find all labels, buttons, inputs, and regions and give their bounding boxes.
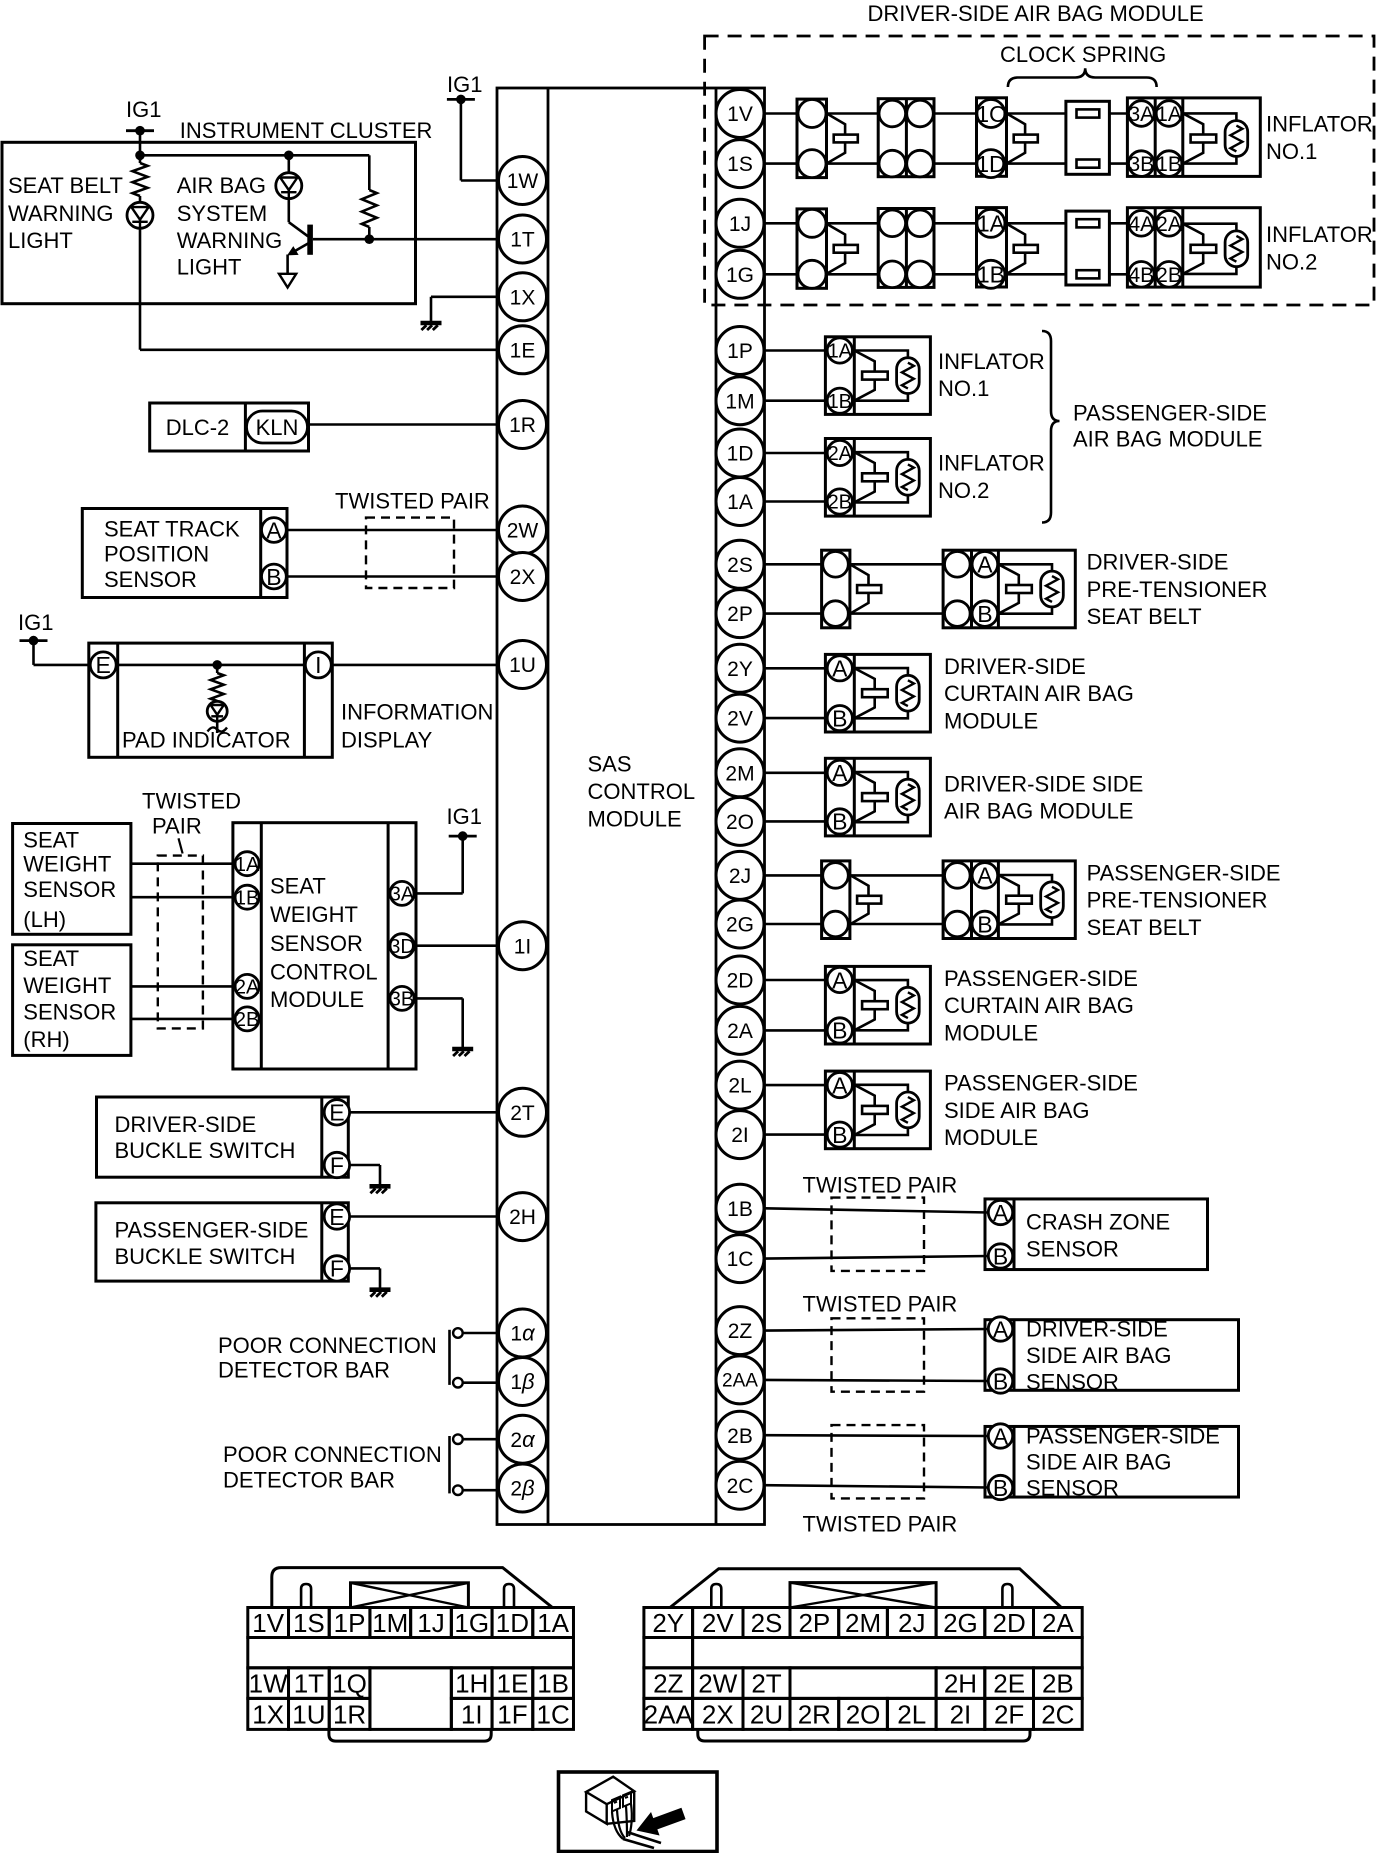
label SEAT WEIGHT SENSOR (RH) xyxy=(23,946,116,1052)
open terminal to 1α xyxy=(453,1328,498,1338)
wire pin to pre-tensioner connector (top) xyxy=(765,563,822,566)
SAS module pin 2G xyxy=(716,900,764,948)
label pre-tensioner seat belt xyxy=(1087,860,1281,940)
terminal E (driver buckle) xyxy=(324,1100,349,1126)
svg-text:DRIVER-SIDE: DRIVER-SIDE xyxy=(115,1112,257,1137)
svg-text:1G: 1G xyxy=(726,264,754,287)
svg-text:A: A xyxy=(993,1316,1009,1342)
wire clock spring connector to coil (row 1A) xyxy=(1007,222,1066,225)
svg-text:1A: 1A xyxy=(727,491,753,514)
svg-text:1A: 1A xyxy=(235,854,260,876)
svg-text:SIDE AIR BAG: SIDE AIR BAG xyxy=(944,1098,1090,1123)
svg-text:WARNING: WARNING xyxy=(8,201,114,226)
wire pin to pre-tensioner connector (bottom) xyxy=(765,923,822,926)
label PASSENGER-SIDE BUCKLE SWITCH xyxy=(115,1218,309,1269)
label SEAT WEIGHT SENSOR CONTROL MODULE xyxy=(270,873,378,1012)
svg-text:BUCKLE SWITCH: BUCKLE SWITCH xyxy=(115,1244,296,1269)
svg-text:2X: 2X xyxy=(702,1699,734,1729)
connector 2 row 3 cells xyxy=(644,1698,1083,1729)
wire pin to driver-side side air bag module (terminal B) xyxy=(765,820,826,823)
svg-text:A: A xyxy=(832,1072,848,1098)
svg-text:A: A xyxy=(832,656,848,682)
svg-text:B: B xyxy=(832,1122,847,1148)
label passenger-side side air bag module xyxy=(944,1071,1138,1151)
passenger-side buckle switch box xyxy=(96,1203,348,1281)
svg-text:1D: 1D xyxy=(976,151,1005,177)
seat weight sensor LH box xyxy=(13,824,131,935)
svg-text:2U: 2U xyxy=(750,1699,783,1729)
svg-text:1U: 1U xyxy=(292,1699,325,1729)
information display box xyxy=(89,643,332,757)
svg-text:2Z: 2Z xyxy=(653,1669,683,1699)
svg-text:2M: 2M xyxy=(725,762,754,785)
twisted pair shield (passenger-side side air bag sensor) xyxy=(832,1425,925,1498)
wire joint to clock spring (row 1B) xyxy=(934,273,977,276)
SAS module pin 2J xyxy=(716,851,764,899)
svg-text:IG1: IG1 xyxy=(447,804,482,829)
wire clock spring connector to coil (row 1D) xyxy=(1007,162,1066,165)
svg-text:DRIVER-SIDE: DRIVER-SIDE xyxy=(944,654,1086,679)
svg-text:1B: 1B xyxy=(235,887,259,909)
svg-text:TWISTED PAIR: TWISTED PAIR xyxy=(803,1172,958,1197)
svg-text:DETECTOR BAR: DETECTOR BAR xyxy=(223,1468,395,1493)
svg-text:TWISTED: TWISTED xyxy=(142,788,241,813)
svg-text:NO.1: NO.1 xyxy=(938,376,989,401)
node junction IG1 bus xyxy=(135,151,145,161)
svg-text:PASSENGER-SIDE: PASSENGER-SIDE xyxy=(1073,400,1267,425)
SAS module pin 2Z xyxy=(716,1307,764,1355)
node junction air bag lamp branch xyxy=(284,151,294,161)
connector 1 locator pin left xyxy=(301,1584,311,1608)
svg-text:BUCKLE SWITCH: BUCKLE SWITCH xyxy=(115,1138,296,1163)
wire E to pin 2T xyxy=(350,1111,497,1114)
terminal 3A (SWS control module) xyxy=(390,881,415,905)
SAS module pin 1X xyxy=(499,273,547,321)
connector 2 row 2 cells xyxy=(644,1668,1082,1699)
DLC-2 connector box xyxy=(150,403,309,451)
wire pin to passenger-side side air bag module (terminal A) xyxy=(765,1084,826,1087)
label TWISTED PAIR (driver-side side air bag sensor) xyxy=(803,1291,958,1316)
wire IG1 to 3A xyxy=(414,836,463,893)
svg-text:2S: 2S xyxy=(751,1608,783,1638)
open terminal to 2α xyxy=(453,1434,498,1444)
label AIR BAG SYSTEM WARNING LIGHT xyxy=(177,173,283,280)
svg-text:2V: 2V xyxy=(702,1608,734,1638)
svg-text:1Q: 1Q xyxy=(332,1669,367,1699)
svg-text:SENSOR: SENSOR xyxy=(1026,1369,1119,1394)
label DLC-2 xyxy=(166,415,230,440)
connector 1 middle open region xyxy=(370,1668,451,1730)
svg-text:2X: 2X xyxy=(510,566,536,589)
wire clock spring connector to coil (row 1B) xyxy=(1007,273,1066,276)
label DRIVER-SIDE BUCKLE SWITCH xyxy=(115,1112,296,1163)
svg-text:WEIGHT: WEIGHT xyxy=(23,852,111,877)
ground (passenger buckle) xyxy=(370,1290,391,1297)
wire connector to pre-tensioner (bottom) xyxy=(850,612,943,615)
connector 1 bottom tab xyxy=(329,1729,491,1741)
svg-text:2B: 2B xyxy=(1156,264,1182,287)
label SEAT WEIGHT SENSOR (LH) xyxy=(23,828,116,932)
svg-text:CURTAIN AIR BAG: CURTAIN AIR BAG xyxy=(944,681,1134,706)
label INSTRUMENT CLUSTER xyxy=(180,118,433,143)
svg-text:1I: 1I xyxy=(514,935,532,958)
svg-text:B: B xyxy=(832,809,847,835)
wire LH to 1B xyxy=(131,896,234,899)
svg-text:1B: 1B xyxy=(1156,153,1182,176)
svg-text:I: I xyxy=(315,652,321,678)
svg-text:2I: 2I xyxy=(950,1699,972,1729)
in-line connector (pre-tensioner) xyxy=(822,550,882,628)
resistor (pad indicator) xyxy=(211,665,224,701)
SAS module pin 1β xyxy=(499,1358,547,1406)
resistor (seat belt warning light ballast) xyxy=(133,155,148,202)
svg-text:SEAT TRACK: SEAT TRACK xyxy=(104,517,240,542)
svg-text:POSITION: POSITION xyxy=(104,541,209,566)
svg-text:1M: 1M xyxy=(372,1608,408,1638)
connector 2 locator pin right xyxy=(1002,1584,1012,1608)
svg-text:1I: 1I xyxy=(461,1699,483,1729)
svg-text:1M: 1M xyxy=(725,390,754,413)
wire F to ground (passenger buckle) xyxy=(350,1268,380,1288)
svg-text:1J: 1J xyxy=(729,213,751,236)
svg-text:1E: 1E xyxy=(510,339,536,362)
node junction pad indicator xyxy=(212,660,222,670)
wire IG1 to pin 1W xyxy=(461,99,497,180)
connector 2 locator pin left xyxy=(711,1584,721,1608)
svg-text:1α: 1α xyxy=(510,1321,536,1346)
wire pin to pre-tensioner connector (bottom) xyxy=(765,612,822,615)
svg-text:2B: 2B xyxy=(1042,1669,1074,1699)
svg-text:PAIR: PAIR xyxy=(152,813,202,838)
svg-text:DISPLAY: DISPLAY xyxy=(341,728,433,753)
svg-text:PAD INDICATOR: PAD INDICATOR xyxy=(122,728,291,753)
svg-text:PASSENGER-SIDE: PASSENGER-SIDE xyxy=(944,966,1138,991)
wire pin to driver-side side air bag sensor A xyxy=(765,1329,989,1331)
wire joint to clock spring (row 1D) xyxy=(934,162,977,165)
svg-text:2B: 2B xyxy=(235,1009,259,1031)
svg-text:4B: 4B xyxy=(1128,264,1154,287)
harness-side connector icon cube xyxy=(586,1777,634,1824)
wire connector to pre-tensioner (top) xyxy=(850,563,943,566)
svg-text:2Z: 2Z xyxy=(728,1320,753,1343)
connector 1 locator pin right xyxy=(504,1584,514,1608)
terminal B (seat track sensor) xyxy=(262,564,287,590)
passenger inflator NO.1 box xyxy=(825,337,930,415)
connector 1 gap band xyxy=(248,1638,574,1668)
svg-text:2W: 2W xyxy=(698,1669,737,1699)
wire IG1 bus across cluster xyxy=(140,154,369,157)
open terminal to 2β xyxy=(453,1485,498,1495)
lamp air bag system warning light xyxy=(276,173,302,199)
svg-text:3B: 3B xyxy=(390,989,414,1011)
wire pin to passenger inflator NO.1 (terminal 1A) xyxy=(765,349,826,352)
seat weight sensor RH box xyxy=(13,945,131,1056)
connector 2 shell outline xyxy=(670,1569,1061,1608)
svg-text:2W: 2W xyxy=(507,520,539,543)
SAS module pin 2M xyxy=(716,749,764,797)
terminal 2A (SWS control module) xyxy=(235,974,260,998)
wire coil to inflator (row 1B) xyxy=(1109,273,1127,276)
svg-text:SIDE AIR BAG: SIDE AIR BAG xyxy=(1026,1343,1172,1368)
svg-text:CLOCK SPRING: CLOCK SPRING xyxy=(1000,42,1166,67)
svg-text:INFLATOR: INFLATOR xyxy=(1266,112,1373,137)
svg-text:INFORMATION: INFORMATION xyxy=(341,699,493,724)
svg-text:TWISTED PAIR: TWISTED PAIR xyxy=(803,1511,958,1536)
label INFORMATION DISPLAY xyxy=(341,699,493,752)
wire IG1 down into instrument cluster xyxy=(139,131,142,156)
SAS module pin 2β xyxy=(499,1464,547,1512)
svg-text:TWISTED PAIR: TWISTED PAIR xyxy=(803,1291,958,1316)
wire coil to inflator (row 1D) xyxy=(1109,162,1127,165)
svg-text:CRASH ZONE: CRASH ZONE xyxy=(1026,1209,1170,1234)
svg-text:INSTRUMENT CLUSTER: INSTRUMENT CLUSTER xyxy=(180,118,433,143)
driver-side buckle switch box xyxy=(97,1097,349,1177)
svg-text:B: B xyxy=(977,911,992,937)
svg-text:F: F xyxy=(330,1152,344,1178)
wire pin to connector (row 1D) xyxy=(765,162,798,165)
svg-text:1S: 1S xyxy=(727,153,753,176)
svg-text:1C: 1C xyxy=(727,1248,754,1271)
svg-text:1W: 1W xyxy=(507,170,539,193)
svg-text:INFLATOR: INFLATOR xyxy=(1266,222,1373,247)
svg-text:DLC-2: DLC-2 xyxy=(166,415,230,440)
svg-text:1B: 1B xyxy=(537,1669,569,1699)
wire pin to passenger-side curtain air bag module (terminal A) xyxy=(765,979,826,982)
svg-text:SIDE AIR BAG: SIDE AIR BAG xyxy=(1026,1449,1172,1474)
SAS module pin 2AA xyxy=(716,1356,764,1404)
svg-text:IG1: IG1 xyxy=(126,97,161,122)
svg-text:1D: 1D xyxy=(727,443,754,466)
SAS module pin 2S xyxy=(716,540,764,588)
svg-text:DRIVER-SIDE: DRIVER-SIDE xyxy=(1026,1316,1168,1341)
twisted pair shield (seat track) xyxy=(366,518,454,588)
wire pin to passenger-side side air bag module (terminal B) xyxy=(765,1133,826,1136)
twisted pair shield (driver-side side air bag sensor) xyxy=(832,1318,925,1391)
SAS control module body xyxy=(497,88,765,1525)
svg-text:SENSOR: SENSOR xyxy=(23,877,116,902)
label SAS CONTROL MODULE xyxy=(588,751,696,831)
resistor (cluster pull-up) xyxy=(362,155,377,239)
terminal E (information display) xyxy=(90,652,116,678)
svg-text:A: A xyxy=(993,1423,1009,1449)
wire IG1 to terminal E xyxy=(34,641,91,665)
terminal F (driver buckle) xyxy=(324,1152,349,1178)
svg-text:1S: 1S xyxy=(293,1608,325,1638)
joint connector pair (row 1A/1B) xyxy=(878,209,934,288)
svg-text:B: B xyxy=(977,601,992,627)
label pre-tensioner seat belt xyxy=(1087,550,1268,630)
connector 2 row 1 cells xyxy=(644,1608,1082,1638)
leader line twisted pair xyxy=(179,838,183,853)
wire joint to clock spring (row 1C) xyxy=(934,112,977,115)
svg-text:KLN: KLN xyxy=(256,415,299,440)
label TWISTED PAIR (seat weight) xyxy=(142,788,241,838)
svg-text:LIGHT: LIGHT xyxy=(8,228,73,253)
label driver-side side air bag module xyxy=(944,771,1143,823)
SAS module pin 2C xyxy=(716,1461,764,1509)
label POOR CONNECTION DETECTOR BAR 1 xyxy=(218,1333,437,1383)
svg-text:PASSENGER-SIDE: PASSENGER-SIDE xyxy=(115,1218,309,1243)
wire pin to connector (row 1B) xyxy=(765,273,798,276)
svg-text:B: B xyxy=(993,1368,1008,1394)
power source IG1 (SWS control module) xyxy=(447,804,482,841)
svg-text:2V: 2V xyxy=(727,708,753,731)
SAS module pin 1P xyxy=(716,327,764,375)
svg-text:1P: 1P xyxy=(334,1608,366,1638)
wire pin to connector (row 1A) xyxy=(765,222,798,225)
connector 2 gap band left cell xyxy=(644,1638,693,1668)
svg-text:CONTROL: CONTROL xyxy=(588,779,696,804)
connector 2 keyway xyxy=(790,1583,936,1608)
joint connector pair (row 1C/1D) xyxy=(878,99,934,177)
clock spring brace xyxy=(1008,68,1157,87)
wire RH to 2A xyxy=(131,985,234,988)
svg-text:2α: 2α xyxy=(510,1427,536,1452)
wire pin to crash zone sensor A xyxy=(765,1208,989,1212)
wire pin to driver-side curtain air bag module (terminal B) xyxy=(765,717,826,720)
svg-text:SENSOR: SENSOR xyxy=(1026,1475,1119,1500)
svg-text:B: B xyxy=(266,564,281,590)
wire seat belt lamp to 1E xyxy=(140,228,497,349)
label passenger-side side air bag sensor xyxy=(1026,1423,1220,1500)
svg-text:2B: 2B xyxy=(727,1425,753,1448)
svg-text:2A: 2A xyxy=(1042,1608,1074,1638)
svg-text:1V: 1V xyxy=(252,1608,284,1638)
lamp pad indicator xyxy=(207,701,227,721)
svg-text:2A: 2A xyxy=(1156,213,1182,236)
SAS module pin 1G xyxy=(716,250,764,298)
wire pin 1X to ground xyxy=(431,297,497,322)
svg-text:TWISTED PAIR: TWISTED PAIR xyxy=(335,488,490,513)
svg-text:IG1: IG1 xyxy=(447,72,482,97)
passenger-side curtain air bag module box xyxy=(825,966,930,1044)
svg-text:2P: 2P xyxy=(798,1608,830,1638)
label INFLATOR NO.1 xyxy=(1266,112,1373,164)
label passenger-side curtain air bag module xyxy=(944,966,1138,1046)
svg-text:2C: 2C xyxy=(727,1475,754,1498)
label INFLATOR NO.2 xyxy=(1266,222,1373,274)
svg-text:AIR BAG MODULE: AIR BAG MODULE xyxy=(944,799,1133,824)
wire pin to passenger-side curtain air bag module (terminal B) xyxy=(765,1029,826,1032)
svg-text:1G: 1G xyxy=(454,1608,489,1638)
svg-text:LIGHT: LIGHT xyxy=(177,254,242,279)
svg-text:SAS: SAS xyxy=(588,751,632,776)
label SEAT TRACK POSITION SENSOR xyxy=(104,517,240,592)
svg-text:B: B xyxy=(832,705,847,731)
svg-text:NO.1: NO.1 xyxy=(1266,139,1317,164)
label TWISTED PAIR (passenger-side side air bag sensor below) xyxy=(803,1511,958,1536)
in-line connector (pre-tensioner) xyxy=(822,861,882,939)
clock spring connector 1A/1B xyxy=(977,208,1038,289)
SAS module pin 2D xyxy=(716,956,764,1004)
wire E to I inside display xyxy=(116,664,305,667)
SAS module pin 1M xyxy=(716,377,764,425)
driver-side side air bag sensor box xyxy=(985,1316,1239,1394)
svg-text:2G: 2G xyxy=(943,1608,978,1638)
svg-text:DRIVER-SIDE: DRIVER-SIDE xyxy=(1087,550,1229,575)
svg-text:1T: 1T xyxy=(510,229,535,252)
svg-text:MODULE: MODULE xyxy=(944,1125,1038,1150)
SAS module pin 2A xyxy=(716,1006,764,1054)
terminal E (passenger buckle) xyxy=(324,1204,349,1230)
passenger-side side air bag sensor box xyxy=(985,1423,1239,1501)
svg-text:IG1: IG1 xyxy=(18,610,53,635)
label CLOCK SPRING xyxy=(1000,42,1166,67)
wire LH to 1A xyxy=(131,862,234,865)
label TWISTED PAIR (seat track) xyxy=(335,488,490,513)
svg-text:2E: 2E xyxy=(993,1669,1025,1699)
terminal 3B (SWS control module) xyxy=(390,986,414,1010)
svg-text:2D: 2D xyxy=(993,1608,1026,1638)
svg-text:1B: 1B xyxy=(727,1198,753,1221)
svg-text:A: A xyxy=(977,863,993,889)
svg-text:2L: 2L xyxy=(728,1075,751,1098)
svg-text:INFLATOR: INFLATOR xyxy=(938,349,1045,374)
seat weight sensor control module box xyxy=(233,823,416,1069)
svg-text:PASSENGER-SIDE: PASSENGER-SIDE xyxy=(944,1071,1138,1096)
svg-text:A: A xyxy=(832,967,848,993)
wire 3D to pin 1I xyxy=(414,944,499,947)
svg-text:POOR CONNECTION: POOR CONNECTION xyxy=(218,1333,437,1358)
wire clock spring connector to coil (row 1C) xyxy=(1007,112,1066,115)
svg-text:2Y: 2Y xyxy=(727,658,753,681)
svg-text:NO.2: NO.2 xyxy=(938,478,989,503)
svg-text:3D: 3D xyxy=(389,936,415,958)
svg-text:SEAT BELT: SEAT BELT xyxy=(1087,604,1202,629)
SAS module pin 1U xyxy=(499,641,547,689)
svg-text:WEIGHT: WEIGHT xyxy=(23,973,111,998)
open terminal to 1β xyxy=(453,1378,498,1388)
svg-text:SEAT BELT: SEAT BELT xyxy=(8,173,123,198)
SAS module pin 1A xyxy=(716,478,764,526)
svg-text:1C: 1C xyxy=(976,101,1005,127)
SAS module pin 2O xyxy=(716,797,764,845)
label PAD INDICATOR xyxy=(122,728,291,753)
svg-text:SENSOR: SENSOR xyxy=(104,567,197,592)
harness-side connector icon box xyxy=(559,1772,718,1852)
SAS module pin 1S xyxy=(716,140,764,188)
passenger-side air bag module brace xyxy=(1042,331,1060,523)
wire pin to driver-side curtain air bag module (terminal A) xyxy=(765,667,826,670)
SAS module pin 2P xyxy=(716,590,764,638)
wire pin to driver-side side air bag sensor B xyxy=(765,1380,989,1381)
svg-text:A: A xyxy=(977,552,993,578)
svg-text:1A: 1A xyxy=(977,211,1006,237)
terminal 1B (SWS control module) xyxy=(235,885,259,909)
connector 1 keyway xyxy=(351,1583,469,1608)
svg-text:POOR CONNECTION: POOR CONNECTION xyxy=(223,1442,442,1467)
svg-text:PRE-TENSIONER: PRE-TENSIONER xyxy=(1087,888,1268,913)
wire pin to pre-tensioner connector (top) xyxy=(765,874,822,877)
harness-side connector icon arrow xyxy=(632,1802,688,1843)
wire pin to passenger inflator NO.1 (terminal 1B) xyxy=(765,399,826,402)
svg-text:1B: 1B xyxy=(977,262,1005,288)
svg-text:SEAT: SEAT xyxy=(23,828,79,853)
svg-text:B: B xyxy=(993,1475,1008,1501)
svg-text:1R: 1R xyxy=(509,414,536,437)
ground (pin 1X) xyxy=(421,323,442,330)
connector 1 shell outline xyxy=(272,1568,553,1608)
svg-text:A: A xyxy=(993,1200,1009,1226)
svg-text:1T: 1T xyxy=(294,1669,324,1699)
pre-tensioner seat belt box xyxy=(943,861,1075,939)
svg-text:1V: 1V xyxy=(727,103,753,126)
svg-text:(RH): (RH) xyxy=(23,1027,69,1052)
svg-text:SENSOR: SENSOR xyxy=(1026,1236,1119,1261)
svg-text:2Y: 2Y xyxy=(652,1608,684,1638)
svg-text:2P: 2P xyxy=(727,603,753,626)
SAS module pin 2B xyxy=(716,1411,764,1459)
